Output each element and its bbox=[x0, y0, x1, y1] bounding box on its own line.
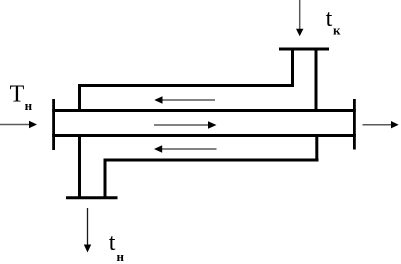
label t_k (cold inlet temperature) bbox=[326, 6, 341, 38]
annulus upper flow arrow (leftward) bbox=[154, 96, 215, 104]
outlet flow arrow (cold stream out, bottom) bbox=[84, 208, 91, 253]
outlet flow arrow (hot stream out, right) bbox=[363, 121, 399, 128]
svg-text:Т: Т bbox=[10, 81, 25, 107]
inlet flow arrow (cold stream in, top) bbox=[296, 0, 303, 36]
left shell end wall bbox=[78, 84, 81, 112]
label T_n (hot inlet temperature) bbox=[10, 81, 33, 113]
inlet branch right wall bbox=[315, 49, 318, 112]
outlet branch left wall bbox=[78, 134, 81, 197]
outlet branch right wall bbox=[104, 159, 107, 198]
right flange bbox=[353, 99, 356, 150]
right shell end wall bbox=[315, 134, 318, 162]
inner tube flow arrow (rightward) bbox=[154, 121, 217, 129]
inlet branch flange bar bbox=[279, 48, 329, 51]
svg-text:н: н bbox=[25, 98, 33, 113]
inner tube top wall bbox=[52, 109, 356, 112]
shell top wall bbox=[78, 84, 294, 87]
inlet flow arrow (hot stream in, left) bbox=[0, 121, 37, 128]
inlet branch left wall bbox=[291, 49, 294, 87]
shell bottom wall bbox=[104, 159, 319, 162]
annulus lower flow arrow (leftward) bbox=[154, 145, 217, 153]
svg-text:к: к bbox=[333, 23, 341, 38]
svg-text:t: t bbox=[109, 230, 116, 256]
label t_n (cold outlet temperature) bbox=[109, 230, 125, 264]
svg-text:t: t bbox=[326, 6, 333, 32]
svg-text:н: н bbox=[117, 249, 125, 264]
outlet branch flange bar bbox=[66, 196, 118, 199]
left flange bbox=[52, 99, 55, 150]
inner tube bottom wall bbox=[52, 134, 356, 137]
